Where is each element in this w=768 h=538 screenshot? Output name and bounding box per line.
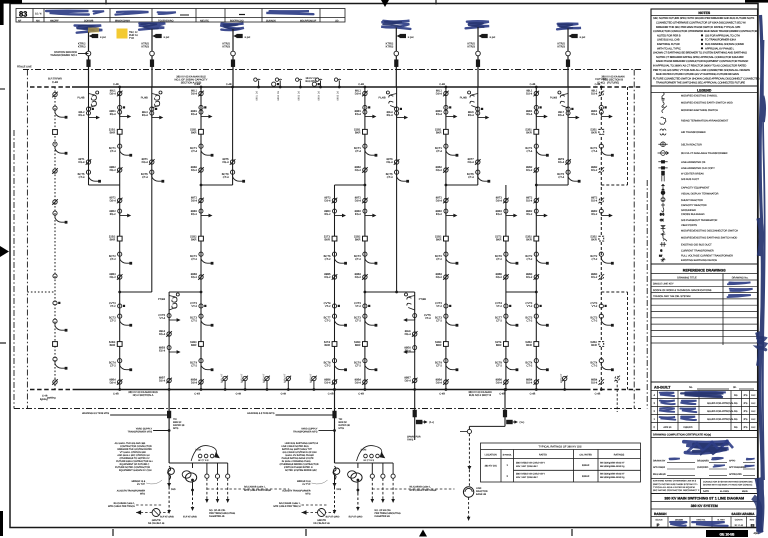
CT T2	[152, 34, 155, 37]
svg-text:REFERENCE DRAWINGS: REFERENCE DRAWINGS	[683, 269, 727, 273]
transformer circles G1	[186, 473, 197, 482]
disconnect F-R.1	[443, 91, 449, 97]
circuit breaker FUT-R.1	[599, 129, 604, 134]
svg-text:JPS: JPS	[743, 426, 748, 429]
svg-text:CT-2: CT-2	[496, 365, 502, 368]
bus 2 PT tail right	[564, 381, 566, 390]
svg-text:BANK 4B: BANK 4B	[476, 493, 487, 496]
bay line Hp	[505, 185, 507, 390]
microfilm stamp below border	[706, 530, 748, 537]
bus CVT dot 1	[272, 82, 280, 86]
future bay partner line dashed	[627, 87, 629, 185]
svg-text:JPS: JPS	[743, 402, 748, 405]
svg-text:DIAMETER 4B: DIAMETER 4B	[375, 515, 391, 518]
jog G-L to G-R at y185	[536, 184, 568, 186]
svg-text:MAIN RATED FUTURE FUTURE GIS V: MAIN RATED FUTURE FUTURE GIS VT EARTHING…	[656, 73, 739, 76]
earth switch Hp	[504, 209, 517, 217]
svg-text:CT-2: CT-2	[355, 258, 361, 261]
svg-text:83: 83	[19, 10, 27, 19]
svg-text:BKR: BKR	[526, 239, 532, 242]
svg-text:VT-2: VT-2	[325, 305, 331, 308]
transformer T1 (hand-drawn)	[75, 26, 103, 33]
breaker G1	[167, 411, 171, 419]
bay line B-L	[151, 87, 153, 292]
left edge tick	[0, 342, 6, 344]
bus 2 PT tail P5	[313, 381, 315, 390]
svg-text:VT-4: VT-4	[425, 317, 431, 320]
svg-text:APD ENGR: APD ENGR	[653, 466, 665, 469]
svg-text:SOKIMB: SOKIMB	[84, 19, 94, 22]
svg-text:AUX/STN TRANSFORMER: AUX/STN TRANSFORMER	[282, 490, 311, 493]
svg-text:BKR: BKR	[591, 344, 597, 347]
second dashed drop G1	[192, 482, 194, 493]
disconnect F-R.3	[443, 198, 449, 204]
junction D-R bus2	[364, 388, 367, 391]
svg-text:AIR TRANSFORMER: AIR TRANSFORMER	[681, 131, 706, 134]
approval blue marks	[669, 458, 679, 459]
svg-text:MODIFIED EARTHING SWITCH: MODIFIED EARTHING SWITCH	[681, 109, 718, 112]
svg-text:DS-4: DS-4	[110, 200, 117, 203]
G3 reactor feeder	[504, 390, 506, 427]
svg-text:DS-4: DS-4	[496, 382, 503, 385]
svg-text:BKR: BKR	[591, 132, 597, 135]
svg-text:DS-4: DS-4	[159, 380, 166, 383]
svg-text:CT-2: CT-2	[591, 365, 597, 368]
svg-text:89S2 DS: 89S2 DS	[277, 91, 280, 101]
bay line G-L	[567, 87, 569, 185]
disconnect B-R.4	[198, 274, 204, 280]
CVT A-L	[86, 107, 93, 111]
svg-text:C-4B: C-4B	[194, 83, 200, 86]
bay line A-L	[88, 87, 90, 185]
scan edge blue streak right	[758, 15, 765, 532]
transformer bank bar G2	[335, 462, 394, 464]
svg-text:ES-4: ES-4	[355, 113, 361, 116]
svg-text:SHALL KV RATING PHASE: SHALL KV RATING PHASE	[285, 454, 314, 457]
svg-text:DS-4: DS-4	[324, 382, 331, 385]
svg-text:PL/4B: PL/4B	[141, 97, 148, 100]
revision entry scribble 4	[158, 12, 176, 14]
svg-text:DS-4: DS-4	[526, 382, 533, 385]
svg-text:ES-2: ES-2	[325, 213, 331, 216]
disconnect A-R.3	[117, 198, 123, 204]
circuit breaker A-R.1	[117, 129, 122, 134]
CT T6	[568, 34, 571, 37]
svg-text:TYPICAL ALL AS ALL RATED BE EQ: TYPICAL ALL AS ALL RATED BE EQUIPM	[653, 486, 695, 489]
svg-text:20 17 40: 20 17 40	[734, 524, 743, 527]
bus 2 PT tail P1	[224, 381, 226, 390]
revision entry scribble 2	[93, 11, 104, 14]
svg-text:VT SHALL STATION SWI: VT SHALL STATION SWI	[120, 451, 146, 454]
disconnect Hp.3	[503, 379, 509, 385]
svg-text:DS-4: DS-4	[355, 382, 362, 385]
disconnect A-R.5	[117, 379, 123, 385]
jog F-L to F-R at y185	[446, 184, 478, 186]
svg-text:OTHERWISE TO NOTED KV: OTHERWISE TO NOTED KV	[119, 457, 149, 460]
signature scribble	[684, 442, 729, 453]
earth switch A-R.1	[118, 110, 131, 118]
svg-text:LHJ: LHJ	[751, 418, 755, 421]
corner mark top-right	[745, 0, 768, 3]
svg-text:GRD/TR: GRD/TR	[317, 519, 326, 522]
svg-text:PER TO AS GIS SPEC VT FOR AND: PER TO AS GIS SPEC VT FOR AND ALL LINE C…	[653, 69, 750, 72]
bus sectionalizer tail S5	[338, 81, 340, 88]
transformer bank bar G1	[169, 462, 228, 464]
bottom id row	[667, 517, 669, 528]
disconnect BP.4	[52, 379, 58, 385]
CT D-R.1	[363, 105, 371, 109]
disconnect D-R.1	[362, 91, 368, 97]
svg-text:≡ pxt: ≡ pxt	[164, 36, 170, 39]
station service tap line	[78, 53, 89, 55]
svg-text:CONDUCTOR CONDUCTOR OTHERWISE: CONDUCTOR CONDUCTOR OTHERWISE MAIN BANK …	[653, 30, 757, 33]
note text block G1	[115, 442, 154, 472]
CT Hp.4	[504, 359, 518, 371]
svg-text:B/L/CAB/4B Cable 1,: B/L/CAB/4B Cable 1,	[114, 502, 136, 505]
svg-text:BANK PHASE BREAKER CONDUCTOR E: BANK PHASE BREAKER CONDUCTOR EQUIPMENT C…	[656, 60, 749, 63]
bay line A-R	[119, 87, 121, 390]
svg-text:VT-2: VT-2	[355, 305, 361, 308]
svg-text:LHJ: LHJ	[751, 394, 755, 397]
disconnect E2	[412, 331, 418, 337]
CT FUT-R.2	[599, 144, 613, 156]
svg-text:DS-2: DS-2	[496, 276, 503, 279]
svg-text:CT-4: CT-4	[223, 176, 229, 179]
CT A-R.1	[118, 105, 126, 109]
svg-text:CAPACITY EQUIPMENT: CAPACITY EQUIPMENT	[681, 186, 710, 189]
secondary boundary line right	[646, 180, 648, 409]
svg-text:BKR: BKR	[110, 132, 116, 135]
svg-text:3 DM: 3 DM	[195, 449, 201, 452]
svg-text:MTG: MTG	[140, 493, 145, 496]
svg-text:MTG: MTG	[173, 427, 178, 430]
breaker T2	[150, 59, 154, 66]
circuit breaker F-R.2	[444, 236, 449, 241]
grounding transformer G1	[136, 512, 169, 514]
disconnect D-L.b	[394, 159, 400, 165]
svg-text:C-4B: C-4B	[530, 393, 536, 396]
earth switch F-R.2	[444, 209, 457, 217]
disconnect E1.2	[166, 378, 172, 384]
CVT E1	[167, 314, 180, 322]
svg-text:BREAKER THE SEC PER MAIN PHASE: BREAKER THE SEC PER MAIN PHASE SWITCH RA…	[656, 26, 741, 29]
svg-text:ES-4: ES-4	[159, 350, 165, 353]
svg-text:KV TYP: KV TYP	[137, 483, 146, 486]
disconnect B-R.5	[198, 379, 204, 385]
disconnect D-R.5	[362, 379, 368, 385]
spare breaker	[413, 410, 417, 418]
svg-text:CT-4: CT-4	[142, 176, 148, 179]
svg-text:36 KVA VT AVAILABLE TRANSFORME: 36 KVA VT AVAILABLE TRANSFORMER	[681, 152, 728, 155]
svg-text:FULL VOLTAGE CURRENT TRANSFORM: FULL VOLTAGE CURRENT TRANSFORMER	[681, 254, 733, 257]
feeder line T6	[567, 29, 569, 88]
svg-text:FUTURE NOTED CONTRACTOR: FUTURE NOTED CONTRACTOR	[115, 466, 150, 469]
svg-text:ELF AT GRID: ELF AT GRID	[183, 516, 197, 519]
svg-text:MTG: MTG	[305, 493, 310, 496]
svg-text:KV TYP: KV TYP	[302, 483, 311, 486]
svg-text:MTR CABLE PER PHASE: MTR CABLE PER PHASE	[244, 489, 271, 492]
ruler tick top 1	[105, 0, 107, 5]
circuit breaker F-R.1	[444, 129, 449, 134]
svg-text:KTR/3: KTR/3	[141, 46, 149, 49]
disconnect BP.1	[52, 92, 58, 98]
svg-text:ES-4: ES-4	[436, 113, 442, 116]
CT F-R.5	[444, 314, 458, 326]
disconnect FUT-R.3	[599, 198, 605, 204]
svg-text:ENG MNGR: ENG MNGR	[653, 473, 666, 476]
svg-text:C-4B: C-4B	[439, 393, 445, 396]
CT G-R.6	[534, 359, 548, 371]
earth switch A-L	[87, 111, 100, 119]
CT A-R.5	[118, 314, 132, 326]
bus sectionalizer tail S1	[258, 81, 260, 88]
svg-text:HKCFIF: HKCFIF	[50, 19, 59, 22]
svg-text:MODIFIED/EXISTING EARTHING SWI: MODIFIED/EXISTING EARTHING SWITCH MOD	[681, 236, 737, 239]
svg-text:CT-2: CT-2	[496, 320, 502, 323]
svg-text:89P2 VT: 89P2 VT	[241, 373, 244, 383]
svg-text:Sh.: Sh.	[733, 386, 737, 389]
earth switch D-R.2	[363, 209, 376, 217]
spare stub drop	[414, 390, 416, 441]
CT F-R.2	[444, 144, 458, 156]
svg-text:DRAWN BY: DRAWN BY	[653, 460, 666, 463]
svg-text:CHECKED: CHECKED	[697, 466, 709, 469]
CT B-R.6	[199, 359, 213, 371]
svg-text:≡ pxt: ≡ pxt	[100, 36, 106, 39]
svg-text:SEC NOTED FUTURE SPEC WITH SHO: SEC NOTED FUTURE SPEC WITH SHOWN PER BRE…	[653, 17, 754, 20]
svg-text:ES-2: ES-2	[526, 213, 532, 216]
ruler tick bottom 2	[305, 529, 307, 536]
disconnect D-R.2	[362, 167, 368, 173]
tap heading line G1	[110, 414, 169, 416]
svg-text:NN: NN	[36, 19, 40, 22]
yard tap G1	[153, 430, 169, 432]
svg-text:CX: CX	[660, 219, 664, 222]
svg-text:B/L/CAB/4B Cable 1,: B/L/CAB/4B Cable 1,	[244, 486, 266, 489]
svg-text:NOTED SYSTEM REFER SEC: NOTED SYSTEM REFER SEC	[285, 469, 317, 472]
svg-text:EARTHING RATED OTHERWISE LINE: EARTHING RATED OTHERWISE LINE IN 3	[653, 480, 697, 483]
disconnect F-R.5	[443, 379, 449, 385]
line trap E1	[169, 293, 179, 310]
svg-text:DS-4: DS-4	[558, 161, 565, 164]
junction A-R bus1	[118, 86, 121, 89]
circuit breaker B-R.3	[199, 342, 204, 347]
disconnect B-R.1	[198, 91, 204, 97]
cable note dashed leader G1	[207, 488, 289, 490]
disconnect B-R.2	[198, 167, 204, 173]
svg-text:DS-4: DS-4	[496, 200, 503, 203]
svg-text:BKR: BKR	[324, 344, 330, 347]
bay line D-L	[396, 87, 398, 292]
svg-text:DS-4: DS-4	[191, 93, 198, 96]
svg-text:TYP.: TYP.	[129, 37, 135, 40]
disconnect G-L.b	[565, 159, 571, 165]
svg-text:PER TRENCH/ROUTING: PER TRENCH/ROUTING	[375, 512, 401, 515]
svg-text:MTR CABLE PER PHASE: MTR CABLE PER PHASE	[410, 489, 437, 492]
svg-text:(C-4C): (C-4C)	[597, 82, 605, 85]
svg-text:RG: RG	[734, 402, 738, 405]
svg-text:APPROVAL KV PHASE L: APPROVAL KV PHASE L	[705, 47, 735, 50]
disconnect A-R.1	[117, 91, 123, 97]
svg-text:EQUIPMENT OF FUTURE C: EQUIPMENT OF FUTURE C	[120, 463, 150, 466]
svg-text:DS-4: DS-4	[468, 161, 475, 164]
svg-text:CURRENT TRANSFORMER: CURRENT TRANSFORMER	[681, 250, 714, 253]
svg-text:≡ pxt: ≡ pxt	[490, 36, 496, 39]
svg-text:ISSUED FOR APPROVAL: ISSUED FOR APPROVAL	[707, 402, 734, 405]
svg-text:TO TRANSFORMER 63KA: TO TRANSFORMER 63KA	[705, 39, 736, 42]
circuit breaker Cp.2	[332, 342, 337, 347]
svg-text:APR 91: APR 91	[663, 426, 672, 429]
svg-text:DRAWING No.: DRAWING No.	[732, 276, 749, 279]
svg-text:MODIFIED EXISTING SYMBOL: MODIFIED EXISTING SYMBOL	[681, 95, 718, 98]
svg-text:MTG: MTG	[339, 427, 344, 430]
revision entry scribble 5	[266, 11, 313, 14]
bay line C	[232, 87, 234, 185]
svg-text:89P1 VT: 89P1 VT	[221, 373, 224, 383]
svg-text:LINE CABLE NOTED BUS: LINE CABLE NOTED BUS	[281, 445, 309, 448]
svg-text:DS-4: DS-4	[110, 93, 117, 96]
grounding transformer G2	[302, 512, 335, 514]
CT Cp.2	[332, 304, 340, 308]
svg-text:DB CBL/BLF 49: DB CBL/BLF 49	[148, 522, 165, 525]
svg-text:NOTED FOR PER B: NOTED FOR PER B	[657, 34, 681, 37]
svg-text:GE 10-5B: GE 10-5B	[720, 532, 736, 536]
svg-text:DATE: DATE	[703, 490, 709, 493]
svg-text:DS-4: DS-4	[222, 161, 229, 164]
svg-text:CT-2: CT-2	[191, 258, 197, 261]
station boundary fence dash-dot rectangle	[23, 69, 641, 71]
svg-text:BKR: BKR	[436, 239, 442, 242]
svg-text:AND SHALL SEC STATION SH: AND SHALL SEC STATION SH	[117, 454, 149, 457]
svg-text:DS-4: DS-4	[355, 93, 362, 96]
svg-text:PT/4B: PT/4B	[158, 298, 165, 301]
svg-text:APPROVED: APPROVED	[729, 473, 742, 476]
feeder line T1	[88, 32, 90, 88]
svg-text:ES-2: ES-2	[436, 213, 442, 216]
future jog at y185	[601, 184, 627, 186]
bus 2 PT tail P4	[287, 381, 289, 390]
svg-text:RATINGS: RATINGS	[614, 454, 625, 457]
disconnect G-R.1	[534, 91, 540, 97]
left edge arrow mark	[0, 246, 9, 257]
svg-text:BUS NO.2 SECT B: BUS NO.2 SECT B	[469, 394, 491, 397]
circuit breaker Hp.2	[504, 342, 509, 347]
svg-text:BF CT B S: BF CT B S	[364, 459, 375, 462]
transformer T3 (hand-drawn)	[220, 24, 244, 31]
svg-text:89S1 DS: 89S1 DS	[256, 91, 259, 101]
disconnect B-L.b	[149, 159, 155, 165]
revision table	[16, 9, 345, 23]
svg-text:89P5 VT: 89P5 VT	[309, 373, 312, 383]
disconnect Cp.2	[332, 274, 338, 280]
CT T4	[397, 34, 400, 37]
svg-text:CT-2: CT-2	[325, 258, 331, 261]
svg-text:10 / 4: 10 / 4	[35, 13, 42, 16]
svg-text:BKR: BKR	[191, 239, 197, 242]
line exit column E1	[168, 292, 170, 390]
svg-text:C-4B: C-4B	[113, 393, 119, 396]
revision table header row marks	[18, 19, 339, 22]
CVT BP	[53, 301, 61, 305]
bay line FUT-R	[600, 87, 602, 390]
svg-text:DS-2: DS-2	[436, 276, 443, 279]
annotation loop G1	[191, 446, 219, 461]
earth switch B-R.2	[199, 209, 212, 217]
svg-text:OTHERWISE REFER CONTRACTOR: OTHERWISE REFER CONTRACTOR	[280, 463, 319, 466]
svg-text:VT-2: VT-2	[436, 305, 442, 308]
circuit breaker A-R.2	[117, 236, 122, 241]
transformer circles G2	[351, 473, 362, 482]
transformer T2 (hand-drawn)	[139, 23, 166, 29]
svg-text:DB CBL/BLF 49: DB CBL/BLF 49	[313, 522, 330, 525]
disconnect G-R.4	[534, 274, 540, 280]
svg-text:PL/4B: PL/4B	[77, 97, 84, 100]
svg-text:DRAWING COMPLETION CERTIFICATE: DRAWING COMPLETION CERTIFICATE NO(s)	[653, 434, 711, 437]
secondary drop solid G1	[192, 463, 194, 468]
CT Hp	[504, 252, 518, 264]
svg-text:GIS BUS DUCT: GIS BUS DUCT	[681, 178, 700, 181]
svg-text:BKR: BKR	[496, 239, 502, 242]
svg-text:4BV / 4BT C/4B/-4B F: 4BV / 4BT C/4B/-4B F	[516, 465, 539, 468]
CT G-R.2	[534, 144, 548, 156]
disconnect FUT-R.4	[599, 274, 605, 280]
svg-text:63KAF: 63KAF	[582, 464, 590, 467]
annotation loop G2	[357, 446, 385, 461]
svg-text:APPD: APPD	[729, 460, 736, 463]
earth switch E1	[167, 346, 180, 354]
svg-text:DS-2: DS-2	[355, 276, 362, 279]
circuit breaker Hp	[504, 236, 509, 241]
svg-text:C-4B: C-4B	[113, 83, 119, 86]
disconnect Cp.3	[332, 379, 338, 385]
svg-text:DS-4: DS-4	[591, 93, 598, 96]
breaker BP.2	[53, 342, 58, 347]
svg-text:C-4B: C-4B	[226, 83, 232, 86]
main secondary dashed drop G1	[168, 475, 170, 487]
svg-text:52/9: 52/9	[171, 488, 176, 491]
svg-text:ES-4: ES-4	[468, 114, 474, 117]
feeder drop G2	[334, 390, 336, 464]
breaker T3	[231, 59, 235, 66]
svg-text:CAPACITY REACTOR: CAPACITY REACTOR	[681, 204, 707, 207]
svg-text:lighting: lighting	[40, 398, 48, 401]
jog B-L to A-R at y292	[120, 291, 152, 293]
ruler index triangle bottom	[419, 530, 427, 537]
cable note dashed leader G2	[372, 488, 454, 490]
earth switch B-R.1	[199, 110, 212, 118]
svg-text:NO. OF 4B CBL: NO. OF 4B CBL	[375, 509, 392, 512]
disconnect FUT-R.2	[599, 167, 605, 173]
CT B-L.b	[150, 170, 164, 182]
svg-text:ES-2: ES-2	[191, 213, 197, 216]
circuit breaker D-R.2	[363, 236, 368, 241]
svg-text:KTR/3: KTR/3	[467, 46, 475, 49]
bus 2 label left	[128, 391, 158, 397]
disconnect D-R.3	[362, 198, 368, 204]
svg-text:≡ pxt: ≡ pxt	[580, 36, 586, 39]
line reactor symbol	[463, 487, 473, 497]
earth switch FUT-R.2	[599, 209, 612, 217]
svg-text:AUX/STN TRANSFORMER: AUX/STN TRANSFORMER	[117, 490, 146, 493]
CT BP.4	[53, 274, 57, 278]
feeder label T5	[467, 43, 475, 49]
svg-text:GROUNDER: GROUNDER	[681, 209, 696, 212]
dotted branch to fence	[27, 291, 55, 293]
svg-text:MTR CABLE PER TRNCH: MTR CABLE PER TRNCH	[273, 505, 300, 508]
CVT E2	[404, 314, 417, 322]
earth switch E2	[404, 346, 417, 354]
svg-text:CONTRACTOR CONDUCTOR: CONTRACTOR CONDUCTOR	[120, 445, 152, 448]
